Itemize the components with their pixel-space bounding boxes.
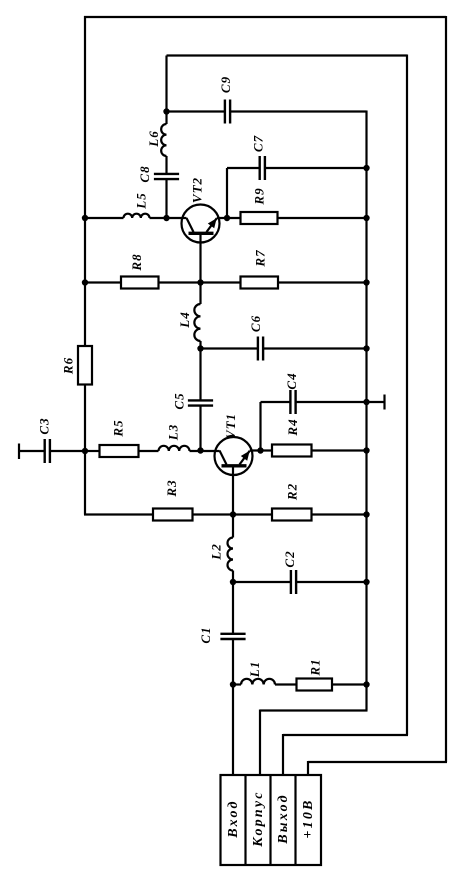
svg-text:R3: R3 xyxy=(164,479,179,497)
connector divider 3 xyxy=(294,775,296,865)
node: emitter / C7 branch junction xyxy=(224,215,230,221)
transistor VT2 body circle xyxy=(182,205,220,243)
svg-text:C4: C4 xyxy=(284,372,299,389)
capacitor C2 xyxy=(290,570,292,594)
terminal: chassis stub bar xyxy=(383,395,385,410)
wire: R2 to ground rail xyxy=(312,513,367,515)
wire: C7 branch vertical xyxy=(226,168,228,218)
resistor R2 xyxy=(272,509,312,521)
wire: stub to chassis terminal xyxy=(367,401,384,403)
wire: C3 line left segment xyxy=(19,450,45,452)
inductor L5 xyxy=(124,214,150,218)
wire: ground rail vertical x=366.5 xyxy=(365,111,367,711)
svg-text:R6: R6 xyxy=(61,357,76,375)
wire: R7 to ground rail xyxy=(278,281,367,283)
svg-text:C6: C6 xyxy=(248,315,263,332)
resistor R9 xyxy=(241,212,278,224)
node: C4 / ground rail junction xyxy=(363,399,369,405)
wire: left rail to R5 xyxy=(85,450,100,452)
inductor L2 xyxy=(228,538,234,571)
resistor R6 (in left rail) xyxy=(78,346,92,385)
node: C5 / VT1 collector junction xyxy=(197,447,203,453)
connector block outline xyxy=(221,775,322,865)
node: R4 / ground rail junction xyxy=(363,447,369,453)
transistor VT1 base bar xyxy=(222,464,247,467)
terminal: C3 input stub bar xyxy=(18,444,20,460)
wire: top border (supply run) horizontal xyxy=(84,16,446,18)
transistor VT2 base bar xyxy=(189,232,214,235)
node: L4 / C6 / C5 junction xyxy=(197,345,203,351)
transistor VT1 xyxy=(215,437,253,475)
wire: C7 line right segment xyxy=(265,167,367,169)
wire: C4 line left segment xyxy=(261,401,291,403)
wire: C2 line left segment xyxy=(233,581,291,583)
wire: L2 bottom to C2 node xyxy=(232,571,234,583)
svg-text:C7: C7 xyxy=(251,135,266,152)
wire: output bend horizontal y=735 xyxy=(283,734,408,736)
svg-text:L2: L2 xyxy=(209,543,224,560)
wire: C8 to collector line xyxy=(165,179,167,218)
resistor R8 xyxy=(121,277,159,289)
svg-text:R1: R1 xyxy=(308,658,323,676)
capacitor C9 xyxy=(224,100,226,124)
connector divider 2 xyxy=(269,775,271,865)
wire: +10V bend horizontal xyxy=(308,761,447,763)
capacitor C6 xyxy=(257,337,259,361)
capacitor C7 xyxy=(259,156,261,180)
svg-text:L1: L1 xyxy=(247,661,262,678)
wire: VT2 emitter out to R9 xyxy=(217,217,241,219)
wire: VT1 base lead down xyxy=(232,466,234,515)
svg-text:C8: C8 xyxy=(137,165,152,182)
svg-text:R4: R4 xyxy=(285,418,300,436)
inductor L6 xyxy=(161,124,166,156)
wire: L3 to VT1 xyxy=(190,450,220,452)
transistor VT1 emitter diagonal with arrow xyxy=(240,451,250,465)
wire: C9 line right segment to ground rail corner xyxy=(230,110,366,112)
wire: L4 top stub xyxy=(199,283,201,305)
wire: left rail vertical (bias net) xyxy=(84,16,86,515)
wire: R3 to base node xyxy=(193,513,273,515)
wire: L6 to C8 xyxy=(165,156,167,174)
transistor VT1 collector diagonal xyxy=(220,451,227,465)
inductor L4 xyxy=(194,304,200,341)
wire: C1 vertical top xyxy=(232,582,234,634)
node: emitter / C4 branch / R4 junction xyxy=(257,447,263,453)
wire: L1 to R1 xyxy=(275,683,297,685)
node: R1 / ground rail junction xyxy=(363,681,369,687)
wire: VT1 emitter out xyxy=(250,449,272,451)
node: R9 / ground rail junction xyxy=(363,215,369,221)
svg-text:Вход: Вход xyxy=(226,799,241,838)
wire: R9 to ground rail xyxy=(278,217,367,219)
node: C8 / collector junction xyxy=(163,215,169,221)
wire: ground drop into connector xyxy=(259,710,261,777)
wire: output rail vertical x=407 xyxy=(406,55,408,736)
wire: C1 to input line xyxy=(232,639,234,685)
svg-text:R9: R9 xyxy=(252,187,267,205)
svg-text:C9: C9 xyxy=(218,76,233,93)
node: C6 / ground rail junction xyxy=(363,345,369,351)
node: C1 / L1 / input junction xyxy=(230,681,236,687)
wire: input node to L1 xyxy=(233,683,241,685)
wire: +10V drop into connector xyxy=(307,761,309,776)
svg-text:L5: L5 xyxy=(134,192,149,209)
svg-text:R2: R2 xyxy=(285,483,300,501)
wire: L6 top to inner line vertical xyxy=(165,56,167,125)
capacitor C5 xyxy=(188,399,213,401)
node: VT2 base / R8 / R7 / L4 junction xyxy=(197,279,203,285)
node: left rail / R8 junction xyxy=(82,279,88,285)
wire: R3 line from left rail corner xyxy=(84,513,153,515)
resistor R7 xyxy=(241,277,279,289)
wire: input drop into connector x=233 xyxy=(232,685,234,777)
svg-text:Корпус: Корпус xyxy=(251,790,266,847)
node: VT1 base / R3 / R2 / L2 junction xyxy=(230,511,236,517)
wire: C9 line left segment xyxy=(167,110,225,112)
wire: inner top line to output rail xyxy=(167,54,408,56)
wire: C7 line left segment xyxy=(227,167,260,169)
resistor R3 xyxy=(153,509,193,521)
node: C3 / left rail / R5 junction xyxy=(82,448,88,454)
inductor L1 xyxy=(241,679,275,685)
svg-text:L6: L6 xyxy=(146,130,161,147)
wire: C6 line left segment xyxy=(201,347,258,349)
capacitor C8 xyxy=(154,173,179,175)
transistor VT2 collector diagonal xyxy=(187,218,194,232)
svg-text:C5: C5 xyxy=(172,392,187,409)
wire: L4 bottom to C6 node xyxy=(199,341,201,349)
svg-text:R8: R8 xyxy=(129,253,144,271)
wire: R4 to ground rail xyxy=(312,449,367,451)
wire: C5 to VT1 collector line xyxy=(199,406,201,451)
svg-text:C1: C1 xyxy=(198,626,213,643)
svg-text:R5: R5 xyxy=(111,419,126,437)
node: left rail / L5 junction xyxy=(82,215,88,221)
svg-text:L4: L4 xyxy=(177,311,192,328)
node: L2 / C2 / C1 junction xyxy=(230,579,236,585)
wire: VT2 base lead down xyxy=(199,233,201,283)
svg-text:C3: C3 xyxy=(37,417,52,434)
wire: R1 to ground rail xyxy=(332,683,367,685)
transistor VT2 emitter diagonal with arrow xyxy=(207,218,217,232)
resistor R4 xyxy=(272,445,312,457)
wire: R8 line from left rail xyxy=(85,281,121,283)
svg-text:L3: L3 xyxy=(166,424,181,441)
svg-text:VT1: VT1 xyxy=(223,413,238,439)
wire: L2 top stub xyxy=(232,515,234,538)
node: R7 / ground rail junction xyxy=(363,279,369,285)
wire: C4 line right segment xyxy=(296,401,367,403)
capacitor C1 xyxy=(220,633,245,635)
wire: ground bend horizontal y=710.5 xyxy=(260,709,368,711)
wire: L5 to VT2 xyxy=(150,217,187,219)
node: C9 / L6 junction xyxy=(163,108,169,114)
resistor R5 xyxy=(100,445,139,457)
wire: R8 to base node xyxy=(159,281,241,283)
node: C2 / ground rail junction xyxy=(363,579,369,585)
svg-text:C2: C2 xyxy=(282,550,297,567)
wire: VT2 collector line from left rail xyxy=(85,217,124,219)
wire: C6 line right segment xyxy=(263,347,366,349)
svg-text:+10В: +10В xyxy=(301,798,316,838)
resistor R1 xyxy=(297,679,333,691)
wire: C5 vertical xyxy=(199,349,201,401)
svg-text:VT2: VT2 xyxy=(190,177,205,203)
wire: C3 to left rail xyxy=(50,450,85,452)
svg-text:Выход: Выход xyxy=(276,793,291,844)
wire: C4 branch vertical xyxy=(259,402,261,451)
wire: R5 to L3 xyxy=(139,450,159,452)
node: C7 / ground rail junction xyxy=(363,165,369,171)
wire: output drop into connector xyxy=(282,734,284,776)
capacitor C4 xyxy=(289,390,291,414)
capacitor C3 xyxy=(44,439,46,463)
connector divider 1 xyxy=(244,775,246,865)
node: R2 / ground rail junction xyxy=(363,511,369,517)
wire: right border vertical down to +10V bend xyxy=(445,16,447,762)
inductor L3 xyxy=(159,446,190,451)
wire: C2 line right segment xyxy=(296,581,366,583)
svg-text:R7: R7 xyxy=(253,249,268,267)
